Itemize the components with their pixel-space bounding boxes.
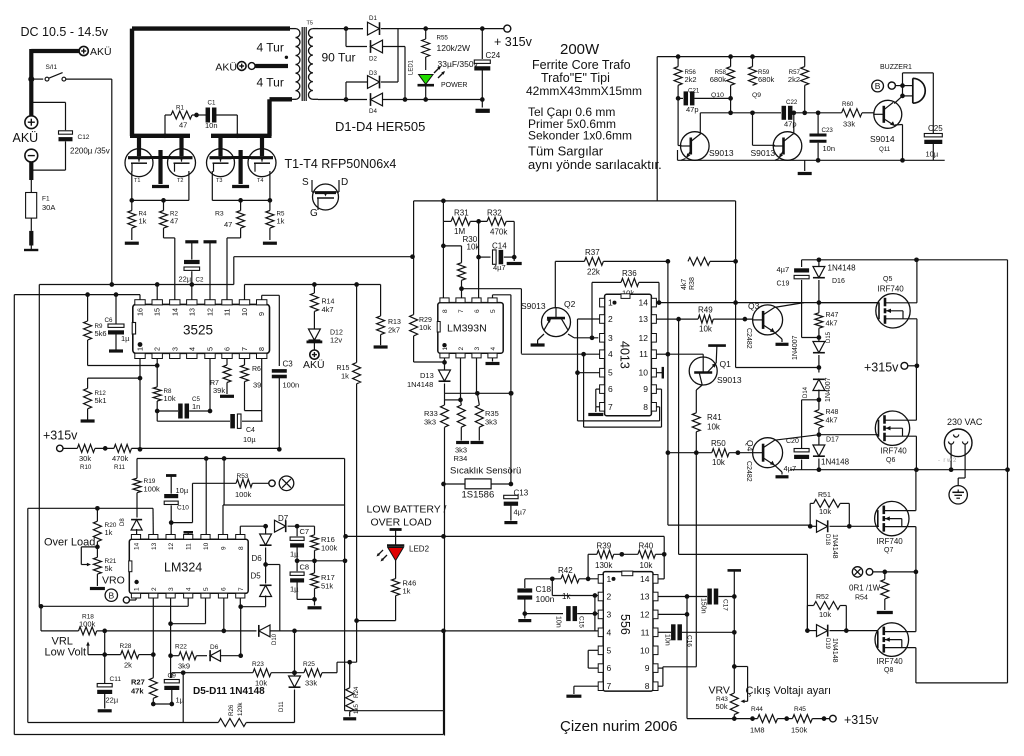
svg-text:LED2: LED2 [409, 545, 430, 554]
resistor R23 10k [253, 669, 271, 677]
svg-text:4µ7: 4µ7 [777, 265, 790, 274]
svg-text:1N4148: 1N4148 [821, 458, 850, 467]
resistor R27 47k [152, 655, 154, 678]
svg-text:10k: 10k [699, 325, 713, 334]
556 pin11 wire + C16 10n [658, 631, 671, 633]
pot R21 5k VRO [95, 545, 100, 550]
terminal AKU+ top [79, 46, 88, 55]
svg-text:D13: D13 [420, 371, 434, 380]
svg-text:11: 11 [639, 349, 648, 359]
svg-text:C22: C22 [786, 99, 798, 106]
svg-text:AKÜ: AKÜ [303, 359, 325, 371]
Q11 collector wire [894, 96, 902, 104]
svg-text:D1-D4 HER505: D1-D4 HER505 [335, 119, 425, 134]
svg-text:T4: T4 [257, 178, 263, 184]
wire y508 line to pin13 [28, 507, 153, 509]
svg-text:1µ: 1µ [290, 585, 299, 594]
transistor T3 [207, 149, 235, 177]
svg-text:22µ: 22µ [179, 275, 192, 284]
wire LM324 pin3 column [170, 598, 172, 678]
resistor R25 33k [304, 669, 322, 677]
3525 pin8 wire [261, 359, 263, 422]
svg-text:10k: 10k [819, 610, 831, 619]
svg-text:39: 39 [253, 381, 261, 390]
wire R3 to 3525 pin11 [240, 228, 242, 238]
4013 pin stubs [600, 298, 605, 307]
svg-text:10k: 10k [255, 679, 267, 688]
svg-text:IRF740: IRF740 [877, 537, 904, 546]
Q4 emitter ground [775, 465, 782, 472]
svg-text:IRF740: IRF740 [877, 657, 904, 666]
svg-text:C15: C15 [578, 616, 585, 628]
wire output bottom rail [790, 469, 1008, 471]
556 pin13 wire + C17 150n [658, 596, 707, 598]
resistor R58 680k [728, 54, 733, 59]
transistor T4 [248, 149, 276, 177]
3525 pin stubs [135, 300, 145, 305]
svg-text:4 Tur: 4 Tur [257, 76, 284, 90]
4013 pin13 wire to R49 [656, 318, 698, 320]
svg-text:R42: R42 [558, 566, 573, 575]
svg-text:R38: R38 [689, 277, 696, 290]
resistor R34 3k3 [460, 400, 463, 405]
svg-text:C12: C12 [78, 134, 90, 141]
IC LM393N body [438, 303, 503, 354]
svg-text:5k1: 5k1 [95, 396, 107, 405]
capacitor C24 [480, 26, 485, 31]
svg-text:10k: 10k [164, 394, 176, 403]
svg-text:4k7: 4k7 [826, 319, 838, 328]
wire R2 to 3525 pin14 [163, 228, 165, 238]
svg-text:4: 4 [186, 587, 193, 591]
svg-text:T2: T2 [177, 178, 183, 184]
svg-text:Sıcaklık Sensörü: Sıcaklık Sensörü [450, 466, 521, 477]
svg-text:R41: R41 [707, 413, 722, 422]
diode D17 1N4148 [818, 435, 820, 446]
resistor R36 10k [592, 281, 621, 283]
wire R46 junction [354, 618, 359, 623]
556 pins 8 9 tie to R41 node [658, 685, 663, 687]
capacitor C12 2200u/35v [59, 131, 73, 134]
wire R36 left to pin3 [591, 282, 593, 337]
Q6 drain wire [915, 366, 917, 420]
resistor R31 1M [441, 199, 446, 204]
svg-text:1S1586: 1S1586 [462, 490, 495, 501]
svg-text:5: 5 [607, 645, 612, 655]
resistor R12 5k1 [87, 378, 89, 388]
terminal +315v left [57, 445, 63, 451]
556 pin5 pin6 tie [588, 649, 598, 651]
resistor R20 1k [96, 508, 98, 521]
4013 pin2 pin5 tie [578, 318, 600, 320]
terminal +315v top [504, 25, 511, 32]
svg-text:2200µ /35v: 2200µ /35v [70, 147, 110, 156]
capacitor C14 4u7 [476, 255, 481, 260]
svg-text:D8: D8 [120, 518, 126, 526]
svg-text:4: 4 [490, 347, 497, 351]
svg-text:2: 2 [608, 314, 613, 324]
svg-text:AKÜ: AKÜ [13, 131, 39, 145]
svg-text:5: 5 [206, 347, 215, 351]
svg-text:1N4148: 1N4148 [831, 638, 838, 663]
svg-text:R32: R32 [487, 209, 502, 218]
svg-text:D11: D11 [279, 701, 285, 712]
wire R59 column to Q9 base [752, 113, 754, 146]
svg-text:S9013: S9013 [717, 375, 742, 385]
LM393 pin5 wire to C13 [492, 295, 494, 298]
4013 notch [621, 294, 630, 299]
556 pin2-pin3 jog [594, 596, 596, 631]
svg-text:+ 315v: + 315v [494, 35, 533, 49]
resistor R8 10k [153, 387, 161, 401]
source column T1 T2 + ground [150, 156, 161, 159]
svg-text:30k: 30k [79, 454, 91, 463]
wire pin10 column [205, 459, 207, 535]
svg-text:3: 3 [168, 587, 175, 591]
wire pin12 column down to R44 row [686, 614, 688, 718]
resistor R28 2k [121, 651, 139, 659]
drain bus T1 T2 thick [130, 134, 190, 138]
transistor Q2 S9013 [542, 308, 571, 337]
resistor R52 10k [806, 606, 808, 631]
capacitor C1 10n [192, 114, 206, 116]
svg-text:VRO: VRO [102, 575, 125, 587]
diode D15 1N4007 [818, 338, 820, 343]
resistor R10 30k [63, 447, 77, 449]
svg-text:Q5: Q5 [883, 276, 892, 283]
transistor T2 [168, 149, 196, 177]
svg-text:10k: 10k [419, 323, 431, 332]
wire x41 to R18 [40, 606, 42, 631]
3525 pin13 wire + C2 22u [191, 285, 193, 300]
svg-text:Çizen nurim 2006: Çizen nurim 2006 [560, 718, 678, 735]
svg-text:3k9: 3k9 [178, 662, 190, 671]
svg-text:100k: 100k [144, 485, 161, 494]
oscillator ground rail [678, 159, 945, 161]
wire pin8 column up [239, 526, 241, 534]
svg-text:1: 1 [442, 347, 449, 351]
svg-text:Low Volt: Low Volt [45, 647, 87, 659]
4013 pin9 wire loop to pin4 [656, 388, 661, 390]
wire R26 column [182, 673, 184, 723]
resistor R54 0R1/1W [884, 572, 886, 580]
svg-text:2: 2 [153, 347, 162, 351]
svg-text:D18: D18 [824, 534, 830, 546]
capacitor C6 1u [114, 292, 119, 297]
svg-text:2k2: 2k2 [788, 75, 800, 84]
svg-text:51k: 51k [321, 582, 333, 591]
svg-text:C7: C7 [300, 527, 310, 536]
Q5 drain wire [916, 260, 918, 303]
svg-text:11: 11 [186, 543, 193, 550]
svg-text:D: D [341, 177, 348, 188]
control rail from switch [39, 284, 234, 286]
svg-text:1M8: 1M8 [750, 726, 765, 735]
wire pin6 column [478, 257, 480, 300]
svg-text:C2: C2 [196, 277, 204, 284]
svg-text:1N4148: 1N4148 [828, 264, 857, 273]
svg-text:G: G [310, 208, 318, 219]
svg-text:AKÜ: AKÜ [90, 46, 112, 58]
capacitor C4 10u [230, 414, 235, 428]
svg-text:4: 4 [608, 349, 613, 359]
resistor R24 1k5 [347, 660, 352, 665]
svg-text:C21: C21 [688, 88, 700, 95]
svg-text:R26: R26 [228, 704, 235, 716]
svg-text:33µF/350v: 33µF/350v [438, 59, 479, 69]
svg-text:11: 11 [641, 627, 650, 637]
ground C24 [476, 109, 490, 113]
LM324 pin1 dot [134, 580, 138, 584]
svg-text:Q9: Q9 [752, 92, 761, 99]
svg-text:R49: R49 [698, 306, 713, 315]
diode D2 [345, 29, 347, 47]
556 pin12 wire [658, 613, 687, 615]
svg-text:R23: R23 [252, 661, 264, 668]
svg-text:+315v: +315v [43, 429, 78, 443]
LED1 arrows [434, 67, 440, 73]
svg-text:C14: C14 [492, 242, 507, 251]
current sense X terminal [852, 567, 862, 577]
diode D11 vertical [294, 631, 296, 677]
svg-text:120k/2W: 120k/2W [437, 43, 471, 53]
svg-text:C4: C4 [246, 427, 255, 434]
svg-text:Q8: Q8 [884, 667, 893, 674]
svg-text:47: 47 [179, 121, 187, 130]
svg-text:R11: R11 [114, 464, 125, 471]
wire C4 row [157, 420, 230, 422]
svg-text:4k7: 4k7 [322, 305, 334, 314]
svg-text:90 Tur: 90 Tur [322, 51, 356, 65]
svg-text:3: 3 [607, 609, 612, 619]
svg-text:T1-T4 RFP50N06x4: T1-T4 RFP50N06x4 [285, 157, 397, 171]
svg-text:47: 47 [224, 220, 232, 229]
svg-text:1µ: 1µ [290, 550, 299, 559]
svg-text:3: 3 [474, 347, 481, 351]
svg-text:R1: R1 [176, 105, 184, 112]
wire pin11 to Q1 base [668, 353, 703, 355]
resistor R22 3k9 [179, 652, 197, 660]
fuse F1 30A [26, 193, 37, 219]
wire pin1 column [139, 359, 141, 450]
svg-text:10n: 10n [205, 121, 218, 130]
resistor R47 4k7 [818, 303, 820, 313]
svg-text:Trafo"E" Tipi: Trafo"E" Tipi [541, 71, 610, 85]
556 pin7 ground [574, 685, 598, 687]
transistor Q4 C2482 [753, 438, 783, 468]
wire long bus y631 into 556 pin4 [120, 630, 257, 632]
svg-text:Q4: Q4 [745, 440, 755, 452]
svg-text:Q2: Q2 [564, 299, 576, 309]
resistor R49 10k [698, 315, 713, 323]
resistor R6 39 [244, 359, 246, 366]
svg-text:1: 1 [607, 574, 612, 584]
resistor R41 10k [692, 413, 700, 432]
svg-text:0R1 /1W: 0R1 /1W [849, 584, 881, 593]
svg-text:10µ: 10µ [243, 435, 256, 444]
svg-text:R60: R60 [842, 101, 854, 108]
svg-text:470k: 470k [490, 228, 508, 237]
svg-text:Ferrite Core Trafo: Ferrite Core Trafo [532, 58, 631, 72]
svg-text:AKÜ: AKÜ [215, 62, 237, 74]
svg-text:T3: T3 [216, 178, 222, 184]
Q4 collector wire [775, 435, 819, 441]
svg-text:R44: R44 [751, 706, 763, 713]
wire left box feed [38, 285, 40, 607]
svg-text:5k: 5k [105, 564, 113, 573]
svg-text:B: B [875, 81, 881, 91]
wire y704 row [153, 703, 172, 705]
wire R37 column down [667, 261, 669, 452]
resistor R55 120k/2W [423, 26, 428, 31]
Q2 collector wire to 4013 pin3 [568, 334, 574, 338]
resistor R37 22k [555, 260, 584, 262]
resistor R14 4k7 [313, 285, 315, 294]
4013 pin10 NC bar [656, 372, 662, 374]
wire pin11 net down to Q7 drive [667, 453, 669, 525]
ground battery [24, 249, 38, 251]
svg-text:R28: R28 [120, 643, 132, 650]
svg-text:1N4148: 1N4148 [831, 534, 838, 559]
svg-text:R52: R52 [816, 594, 829, 601]
svg-text:T5: T5 [307, 21, 313, 27]
Q2 base wire from R37 [554, 261, 556, 307]
diode D6b [210, 650, 220, 661]
wire C7 C8 mid row [297, 560, 345, 562]
svg-text:D2: D2 [369, 56, 377, 63]
svg-text:Sekonder 1x0.6mm: Sekonder 1x0.6mm [528, 129, 632, 143]
svg-text:10: 10 [203, 542, 210, 550]
wire LM324 pin7 column [239, 598, 241, 607]
svg-text:3k3: 3k3 [485, 418, 497, 427]
svg-text:+315v: +315v [864, 361, 899, 375]
wire x345 feed [344, 459, 346, 711]
wire R23 row [172, 672, 253, 674]
svg-text:1N4007: 1N4007 [825, 377, 832, 402]
svg-text:1N4148: 1N4148 [407, 380, 433, 389]
svg-text:1n: 1n [192, 402, 200, 411]
3525 pin9 wire to C3 [261, 295, 263, 299]
Q1 emitter supply bar [708, 344, 726, 347]
resistor R5 1k [269, 200, 271, 210]
svg-text:470k: 470k [112, 454, 129, 463]
svg-text:680k: 680k [758, 75, 775, 84]
3525 pin5 wire [209, 359, 211, 412]
svg-text:4k7: 4k7 [826, 416, 838, 425]
svg-text:556: 556 [618, 614, 632, 635]
svg-text:9: 9 [645, 663, 650, 673]
svg-text:12v: 12v [330, 336, 342, 345]
ground C14 [513, 257, 515, 261]
svg-text:2: 2 [458, 347, 465, 351]
terminal +315v bottom [830, 715, 837, 722]
svg-text:BUZZER1: BUZZER1 [880, 64, 912, 71]
svg-text:4: 4 [187, 347, 196, 351]
svg-text:680k: 680k [710, 75, 727, 84]
capacitor C23 10n [817, 113, 819, 134]
svg-text:R39: R39 [597, 542, 612, 551]
4013 pin11 wire [656, 353, 668, 355]
wire multivib row left [700, 112, 781, 114]
IC 3525 body [133, 304, 270, 353]
svg-text:42mmX43mmX15mm: 42mmX43mmX15mm [526, 84, 642, 98]
capacitor C19 4u7 [801, 260, 803, 267]
svg-text:8: 8 [645, 681, 650, 691]
svg-text:6: 6 [608, 384, 613, 394]
wire cell minus thick [29, 162, 33, 180]
node B buzzer [872, 80, 884, 92]
svg-text:R54: R54 [855, 595, 868, 602]
svg-text:7: 7 [458, 309, 465, 313]
wire oscillator supply rail [657, 56, 805, 58]
resistor R2 47 [163, 200, 165, 210]
svg-text:13: 13 [639, 314, 649, 324]
svg-text:D17: D17 [826, 437, 839, 444]
svg-text:R53: R53 [237, 473, 249, 480]
resistor R30 10k [443, 245, 461, 247]
wire R39 left to pin1 [587, 554, 589, 579]
svg-text:10k: 10k [640, 561, 654, 570]
mosfet Q8 IRF740 [875, 623, 909, 657]
wire supply rail upper [414, 200, 736, 202]
svg-text:6: 6 [221, 587, 228, 591]
wire primary bottom thick [270, 97, 293, 101]
drain bus T3 T4 thick [211, 134, 272, 138]
svg-text:14: 14 [134, 542, 141, 550]
svg-text:aynı yönde sarılacaktır.: aynı yönde sarılacaktır. [528, 157, 662, 172]
svg-text:4µ7: 4µ7 [784, 464, 797, 473]
svg-text:200W: 200W [560, 41, 600, 58]
svg-text:LOW BATTERY /: LOW BATTERY / [367, 504, 447, 516]
resistor R15 1k [354, 282, 359, 287]
wire long line y606 left [41, 605, 188, 607]
svg-text:3525: 3525 [183, 323, 213, 338]
556 notch [622, 571, 633, 576]
diode D18 1N4148 [808, 524, 813, 529]
Q9 emitter to rail [775, 159, 779, 161]
3525 pin10 wire to rail right [244, 285, 246, 300]
svg-text:33k: 33k [305, 679, 317, 688]
transistor Q9 S9013 [773, 132, 802, 161]
wire supply to diode midpoint [736, 367, 819, 369]
wire D13 row [445, 392, 512, 394]
svg-text:9: 9 [257, 312, 266, 316]
svg-text:130k: 130k [595, 561, 613, 570]
svg-text:14: 14 [170, 308, 179, 316]
wire Q6 gate row [819, 434, 879, 436]
diode D10 on bus [259, 625, 270, 637]
svg-text:C18: C18 [536, 584, 552, 594]
resistor R17 51k [314, 561, 316, 573]
svg-text:POWER: POWER [441, 82, 467, 89]
3525 pin15 wire [156, 285, 158, 300]
diode D5 vertical [265, 565, 267, 584]
svg-text:R37: R37 [585, 248, 600, 257]
terminal AKU D12 [310, 350, 319, 359]
svg-text:1k5: 1k5 [353, 703, 360, 714]
wire R19 feed line [137, 458, 345, 460]
3525 pin2 wire [156, 359, 158, 387]
svg-text:VRV: VRV [709, 685, 730, 697]
svg-text:S9013: S9013 [751, 148, 776, 158]
resistor R33 3k3 [444, 400, 446, 405]
resistor R16 100k [314, 526, 316, 535]
svg-text:R6: R6 [252, 366, 261, 373]
svg-text:Q3: Q3 [748, 301, 760, 311]
capacitor C13 4u7 [509, 482, 514, 487]
resistor R38 4k7 [688, 257, 710, 265]
wire R22 row [172, 655, 179, 657]
